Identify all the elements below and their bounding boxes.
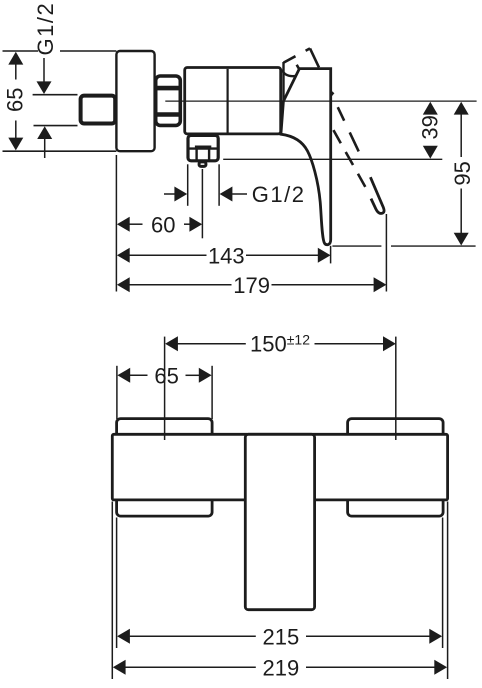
svg-text:215: 215 bbox=[263, 624, 300, 649]
dimension 150±12 bbox=[165, 332, 396, 357]
lever button bump bbox=[330, 90, 334, 98]
central body block (top view) bbox=[245, 434, 314, 609]
dimension 219 bbox=[113, 656, 447, 681]
dimension 179 bbox=[117, 273, 387, 298]
left extension line x=116.4 bbox=[115, 155, 117, 292]
dashed lever front line L1 bbox=[310, 48, 370, 175]
dimension 39 bbox=[418, 102, 443, 159]
svg-text:150±12: 150±12 bbox=[250, 332, 310, 357]
extension line top of wall plate (y=51) bbox=[3, 50, 117, 52]
body part line bbox=[227, 69, 229, 133]
leader arrow up to connector bottom bbox=[37, 126, 52, 139]
lever handle blade (closed position) bbox=[281, 69, 331, 245]
65 left extension line (bottom view) bbox=[116, 366, 118, 419]
svg-text:219: 219 bbox=[263, 656, 300, 681]
150 right extension line bbox=[395, 337, 397, 440]
extension line bottom of wall plate (y=151) bbox=[3, 150, 117, 152]
outlet left extension line bbox=[187, 164, 189, 206]
outlet connector below body bbox=[188, 135, 218, 160]
svg-text:G1/2: G1/2 bbox=[252, 182, 306, 207]
150 left extension line bbox=[164, 337, 166, 440]
dashed lever open-position top edge bbox=[284, 48, 310, 62]
svg-text:60: 60 bbox=[151, 212, 175, 237]
dimension 65 arrow up bbox=[8, 52, 23, 65]
dashed lever tip (solid) bbox=[370, 177, 384, 213]
centerline (y=101) bbox=[165, 100, 476, 102]
right escutcheon (top view) bbox=[348, 419, 444, 516]
square wall connector bbox=[81, 96, 116, 124]
dimension 95 bbox=[450, 102, 475, 246]
dimension 215 bbox=[117, 624, 442, 649]
dashed lever open-position left edge bbox=[282, 62, 284, 101]
dashed lever back line L2 bbox=[294, 60, 370, 195]
dimension 143 bbox=[117, 244, 331, 269]
extension line bottom of square connector (y=125.6) bbox=[34, 125, 78, 127]
svg-text:179: 179 bbox=[233, 273, 270, 298]
svg-text:143: 143 bbox=[208, 244, 245, 269]
svg-text:39: 39 bbox=[418, 115, 443, 139]
dimension 65 arrow down bbox=[8, 138, 23, 151]
outlet center extension line bbox=[201, 169, 203, 238]
body bar (top view) bbox=[112, 434, 447, 500]
svg-text:65: 65 bbox=[154, 364, 178, 389]
65 right extension line (bottom view) bbox=[211, 366, 213, 419]
left escutcheon (top view) bbox=[117, 419, 213, 516]
219 right extension line bbox=[447, 502, 449, 680]
dimension 65 (escutcheon width) bbox=[117, 364, 211, 389]
dimension G1/2 (outlet thread) bbox=[164, 182, 306, 207]
dimension 60 bbox=[117, 212, 202, 237]
extension line top of square connector (y=94.7) bbox=[33, 94, 78, 96]
hex nut between plate and body bbox=[155, 76, 181, 125]
lever bottom reference line (y=246.1) bbox=[332, 245, 381, 247]
lever tip extension line bbox=[330, 246, 332, 264]
outlet right extension line bbox=[218, 164, 220, 206]
G1/2 leader arrow down bbox=[43, 58, 45, 82]
mixer body bbox=[185, 68, 281, 134]
svg-text:95: 95 bbox=[450, 161, 475, 185]
wall plate (escutcheon, side view) bbox=[116, 51, 154, 151]
outlet tip bbox=[199, 162, 206, 167]
svg-text:G1/2: G1/2 bbox=[33, 2, 58, 56]
219 left extension line bbox=[111, 502, 113, 680]
215 left extension line bbox=[116, 518, 118, 649]
215 right extension line bbox=[442, 518, 444, 649]
lever pivot arc bbox=[282, 70, 296, 77]
outlet bottom reference line (y=159.3) bbox=[223, 158, 442, 160]
dimension 65 (plate height) line bbox=[15, 64, 17, 139]
svg-text:65: 65 bbox=[3, 88, 28, 112]
right extension line x=386.4 (lever open tip) bbox=[385, 214, 387, 292]
